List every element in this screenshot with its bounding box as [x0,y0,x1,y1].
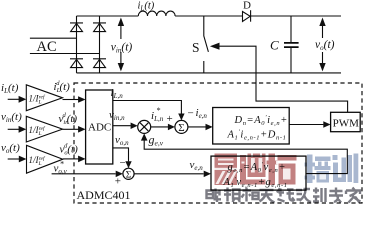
capacitor C wires [290,16,292,73]
svg-text:1/ILref: 1/ILref [29,125,46,137]
svg-text:Σ: Σ [178,122,184,134]
arrowhead sum2 to g [204,171,211,178]
svg-text:vod(t): vod(t) [60,143,79,157]
svg-text:iL(t): iL(t) [1,82,19,95]
amp triangle 1 [26,85,62,111]
arrowhead vov* into sum2 [116,171,123,178]
wire sum1 to D block [188,126,206,128]
inductor L [138,11,175,16]
svg-text:−: − [120,157,126,169]
svg-text:vin(t): vin(t) [111,41,133,54]
svg-text:Σ: Σ [126,170,132,180]
arrowhead amp1-ADC [78,96,86,103]
wire top rail left [77,15,139,17]
bridge diode top-right [93,23,106,32]
svg-text:A1′ie,n-1+Dn-1: A1′ie,n-1+Dn-1 [227,129,287,142]
wire amp1 to ADC [63,99,79,101]
wire iL,n [113,101,182,115]
PWM block [331,112,361,131]
dashed box ADMC401 [74,83,362,203]
svg-text:1/ILref: 1/ILref [29,94,46,106]
char di (block) [240,154,266,185]
svg-text:vo(t): vo(t) [1,142,20,155]
wire top rail mid [175,15,242,17]
diode D [243,12,251,22]
svg-text:S: S [192,40,200,55]
multiplier circle [138,120,151,133]
char she [207,189,222,203]
arrowhead amp3-ADC [78,156,86,163]
wire AC upper [30,37,77,39]
g block [211,156,306,190]
wire sum2 to g block [134,173,204,175]
svg-text:vind(t): vind(t) [59,112,78,126]
svg-text:iL(t): iL(t) [138,1,155,13]
wire feedback ge [144,141,347,174]
wire amp3 to ADC [63,158,79,160]
arrowhead feedback into mult [141,133,148,140]
char yi (block) [215,154,238,186]
svg-text:vo,v*: vo,v* [54,160,68,176]
wire bottom rail [77,72,342,74]
input arrow vin(t) [8,128,19,130]
char he [242,188,259,202]
arrowhead input1 [19,96,27,103]
sum2 circle [123,168,134,179]
amp triangle 3 [27,145,63,173]
wire gate drive [219,46,348,112]
svg-text:C: C [270,38,279,53]
wire AC lower [30,53,100,55]
arrowhead vin,n into mult [131,123,138,130]
bridge diode top-left [70,23,83,32]
svg-text:ve,n: ve,n [190,159,204,172]
char jia [346,188,361,203]
capacitor C plates [284,43,299,47]
char she2 [296,189,311,202]
bridge diode bottom-left [70,59,83,68]
arrowhead iLn down into sum1 [178,114,184,121]
svg-text:PWM: PWM [333,117,360,129]
switch S [204,16,209,73]
svg-text:−: − [188,108,194,120]
wire vo,n [113,148,129,162]
watermark line1 blue chars [305,154,359,184]
watermark line2 gray chars [207,188,361,203]
svg-text:vin,n: vin,n [109,109,125,122]
char xian [277,188,295,202]
wire mult to sum1 [151,126,169,128]
char pei [307,155,313,184]
wire amp2 to ADC [63,128,79,130]
svg-text:AC: AC [37,39,57,55]
char pin [224,188,240,203]
wire vo,v* reference [52,173,116,175]
svg-text:vo(t): vo(t) [315,39,335,52]
wire top rail right [251,15,341,17]
arrowhead amp2-ADC [78,126,86,133]
vo arrowheads [319,18,325,27]
svg-text:+: + [115,175,121,187]
vin arrowheads [118,18,124,27]
arrowhead input2 [19,126,27,133]
char ji [313,188,326,203]
arrowhead sum1 to D [206,124,213,131]
char xun [333,155,338,160]
svg-text:vo,n: vo,n [115,134,129,147]
input arrow iL(t) [8,98,19,100]
svg-text:ADMC401: ADMC401 [77,188,131,202]
svg-text:iLd(t): iLd(t) [54,80,71,94]
bridge diode bottom-right [93,59,106,68]
D block [213,108,290,145]
svg-text:1/ILref: 1/ILref [29,155,46,167]
svg-text:ie,n: ie,n [196,107,208,120]
svg-text:D: D [243,0,251,12]
sum1 circle [175,120,188,133]
svg-text:ge,v: ge,v [149,133,164,148]
svg-text:Dn=A0′ie,n+: Dn=A0′ie,n+ [234,114,288,127]
char zhuan [329,188,343,203]
amp triangle 2 [26,116,62,142]
svg-text:iL,n: iL,n [111,87,124,100]
char tuo (block) [267,154,297,186]
arrowhead D to PWM [323,121,330,128]
svg-text:ADC: ADC [88,122,111,134]
svg-text:vin(t): vin(t) [1,111,22,124]
arrowhead mult to sum1 [168,124,175,131]
arrowhead vo,n into sum2 [125,161,131,168]
wire vin,n [113,125,131,127]
char tian [260,190,275,203]
arrowhead input3 [19,156,27,163]
bridge right leg [99,16,101,73]
vin(t) arrow line [120,24,122,65]
watermark line1 red chars [215,154,297,186]
svg-text:iL,n*: iL,n* [151,106,164,123]
input arrow vo(t) [8,158,19,160]
wire D to PWM [289,124,323,126]
ADC block [86,90,113,164]
gate arrowhead at switch [210,43,220,50]
vo(t) arrow line [322,24,324,65]
bridge left leg [76,16,78,73]
svg-text:+: + [167,113,173,125]
